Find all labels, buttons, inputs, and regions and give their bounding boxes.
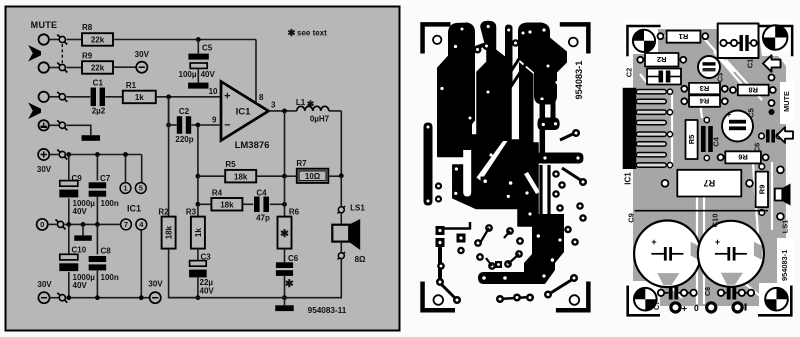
wire rail to C5	[197, 40, 199, 54]
square pads upper-left of bottom area	[436, 222, 471, 247]
resistor R8	[82, 33, 113, 46]
+30V rail	[66, 154, 141, 156]
inductor L1 coil	[297, 106, 329, 111]
silkscreen capacitor C9 (big circle)	[634, 221, 701, 288]
svg-text:✱: ✱	[285, 278, 294, 290]
wire R5 to out node	[256, 175, 284, 177]
PCB2 frame corner bottom-left	[626, 286, 660, 317]
silkscreen arrow marker right (LS feed)	[777, 127, 793, 143]
terminal 0V	[37, 219, 48, 230]
svg-text:10Ω: 10Ω	[305, 172, 321, 181]
copper gray: main plane	[633, 29, 786, 306]
IC1 pin 7 circle	[121, 219, 132, 230]
silkscreen resistor R3	[689, 83, 720, 94]
PCB frame corner top-left	[420, 22, 450, 53]
wire pin3 out	[269, 110, 297, 112]
wire -30V to switch	[50, 297, 59, 299]
PCB2 frame corner top-left	[626, 25, 660, 57]
0V rail	[65, 223, 121, 225]
white cut board-number strip	[777, 238, 794, 292]
copper stub C-bottom right	[551, 100, 556, 120]
connector input ground	[39, 120, 49, 130]
wire R1 to +input	[156, 96, 221, 98]
svg-text:C4: C4	[256, 188, 267, 197]
pads R8	[730, 87, 776, 93]
wire node to R4	[198, 203, 212, 205]
copper trace: diagonal to right pad	[562, 168, 587, 186]
svg-text:30V: 30V	[148, 280, 163, 289]
wire to pin1 circle	[125, 155, 127, 183]
silkscreen resistor R8	[738, 85, 769, 96]
silkscreen resistor R2	[645, 53, 679, 67]
svg-text:IC1: IC1	[127, 204, 141, 214]
pad hole right diagonal head	[528, 30, 531, 33]
fiducial bottom-right	[765, 288, 788, 311]
svg-text:C1: C1	[93, 78, 104, 87]
svg-text:10: 10	[209, 87, 218, 96]
pads near mute	[769, 75, 775, 116]
wire R7 to LS1 column	[328, 175, 341, 177]
svg-text:0: 0	[694, 303, 699, 313]
svg-text:R1: R1	[126, 81, 137, 90]
capacitor C6	[276, 262, 293, 276]
white cut MUTE strip	[780, 82, 794, 124]
svg-text:47p: 47p	[256, 213, 270, 222]
svg-text:✱: ✱	[280, 228, 289, 240]
svg-text:R7: R7	[296, 159, 307, 168]
copper trace: two thin verticals center going down	[541, 165, 549, 228]
wire C2 to -input	[191, 124, 221, 126]
svg-text:R7: R7	[704, 178, 716, 188]
copper pads pair near center top	[474, 42, 491, 54]
scattered pads right side	[552, 170, 587, 222]
pad holes horizontal bar	[543, 156, 579, 159]
svg-text:1k: 1k	[194, 228, 203, 237]
mount hole top-left	[433, 36, 441, 44]
silkscreen resistor R5 (vertical)	[686, 120, 698, 159]
terminal -30V left	[38, 292, 49, 303]
node R4 left / R3	[196, 202, 201, 207]
octagon ring of pads (power transistor footprint)	[474, 224, 524, 270]
wire node to R5	[198, 175, 225, 177]
node R5 left / R3	[196, 174, 201, 179]
resistor R1	[123, 91, 156, 104]
silkscreen capacitor C3 circle	[698, 56, 720, 78]
capacitor C4	[254, 197, 269, 213]
node C6 ground	[282, 295, 287, 300]
svg-text:C8: C8	[705, 287, 712, 296]
switch S2a	[57, 92, 67, 102]
dashed gang line between mute switches	[61, 44, 63, 63]
copper trace: thin vertical between center and right	[505, 25, 513, 86]
svg-text:954083-1: 954083-1	[574, 61, 584, 100]
wire pin4 down	[140, 230, 142, 298]
capacitor C10	[59, 254, 78, 271]
LS1 terminal top	[338, 206, 346, 214]
copper column under right diagonal head	[519, 62, 534, 143]
copper trace: center trace + central plane mass	[453, 22, 538, 227]
pad hole in left trace head	[454, 45, 457, 48]
svg-text:LS1: LS1	[780, 220, 789, 233]
pads R6	[718, 154, 769, 160]
wire R9 to -30V terminal	[113, 66, 136, 68]
pads R2	[637, 57, 686, 63]
switch S3 (+30V)	[57, 150, 67, 160]
svg-text:L1: L1	[296, 98, 306, 107]
svg-text:1k: 1k	[135, 93, 144, 102]
wire C9 top lead	[68, 155, 70, 181]
resistor R2	[162, 217, 176, 249]
svg-text:8: 8	[259, 93, 264, 102]
node C2 left	[166, 123, 171, 128]
svg-text:C8: C8	[101, 246, 112, 255]
wire rail to pin5 circle	[141, 155, 143, 183]
node +input junction	[166, 94, 171, 99]
right PCB component layout group	[623, 20, 794, 319]
connector input top (left ch)	[39, 34, 49, 44]
svg-text:R4: R4	[212, 189, 223, 198]
bottom right pads and diagonal	[544, 226, 579, 299]
silkscreen resistor R4	[689, 95, 720, 106]
PCB frame corner top-right	[560, 22, 591, 53]
wire C10 bottom lead	[68, 272, 70, 298]
wire gnd stub	[284, 298, 286, 306]
IC1 pin 1 circle	[120, 183, 131, 194]
white cut bottom-left corner	[624, 281, 660, 319]
terminal pad 0 (supply)	[694, 303, 716, 313]
ground rail segment	[169, 297, 285, 299]
svg-text:C1: C1	[746, 59, 755, 69]
ground bar (C5)	[188, 83, 208, 89]
svg-text:IC1: IC1	[236, 107, 252, 118]
C8 cluster (pads and bars)	[718, 287, 754, 300]
svg-text:MUTE: MUTE	[31, 20, 58, 30]
wire C8 bottom lead	[96, 269, 98, 297]
wire switch to C1	[67, 96, 91, 98]
wire node to R7	[285, 175, 297, 177]
silkscreen capacitor C2 box	[647, 69, 681, 85]
wire LS1 top lead	[340, 213, 342, 225]
wire switch to ground stub	[67, 125, 91, 135]
svg-text:18k: 18k	[234, 172, 248, 181]
wire C1 to R1	[105, 96, 123, 98]
pad holes bottom-right mass	[482, 234, 554, 280]
wire R2 to ground rail	[169, 249, 198, 298]
capacitor C9	[59, 181, 78, 198]
pad hole left thin trace top	[427, 126, 430, 129]
schematic panel background	[6, 7, 400, 331]
svg-text:C4: C4	[712, 136, 721, 146]
svg-text:40V: 40V	[73, 207, 88, 216]
wire switch to R8	[67, 39, 83, 41]
svg-text:R8: R8	[82, 23, 93, 32]
mount hole bottom-left	[434, 295, 444, 305]
wire L1 down to R7 node	[340, 111, 342, 176]
svg-text:18k: 18k	[220, 200, 234, 209]
switch S5 (-30V)	[57, 293, 67, 303]
wire +30V to switch	[49, 154, 58, 156]
node C10 bottom	[66, 295, 71, 300]
terminal pad - (supply)	[733, 303, 747, 312]
wire down to LS1	[340, 176, 342, 207]
IC1 pin 5 circle	[135, 183, 146, 194]
wire input2 to switch	[49, 67, 59, 69]
svg-text:9: 9	[212, 115, 217, 124]
resistor R6	[278, 217, 292, 249]
resistor R3	[191, 217, 205, 249]
silkscreen resistor R9 (vertical)	[756, 172, 768, 208]
capacitor C1	[91, 88, 105, 107]
white cut bottom-right corner	[759, 283, 794, 319]
svg-text:100µ: 100µ	[179, 70, 197, 79]
copper trace: thin diagonals from right head going down-left	[497, 51, 531, 137]
svg-text:5: 5	[139, 184, 143, 193]
svg-text:30V: 30V	[135, 50, 150, 59]
svg-text:C2: C2	[625, 68, 634, 78]
svg-text:100n: 100n	[101, 273, 119, 282]
mount hole top-right	[569, 38, 578, 47]
PCB2 frame corner bottom-right	[758, 286, 793, 317]
svg-text:100n: 100n	[101, 199, 119, 208]
C7 cluster (pads and bars)	[658, 287, 697, 300]
jack plug symbol upper	[28, 45, 41, 62]
wire out down to R5R7 node	[284, 111, 286, 176]
IC1 pins	[636, 90, 666, 168]
wire switch to R9	[67, 67, 83, 69]
svg-text:−: −	[224, 120, 230, 132]
pads R1	[658, 33, 709, 39]
capacitor C4 bars (layout)	[701, 117, 713, 160]
switch S2b	[57, 120, 67, 130]
svg-text:+: +	[682, 304, 688, 315]
white wedge slit in central mass	[477, 141, 508, 181]
copper trace: right diagonal trace (big)	[519, 24, 566, 104]
silkscreen IC1 body (black)	[623, 88, 637, 169]
capacitor C3	[189, 261, 207, 278]
switch S4 (0V)	[56, 219, 66, 229]
svg-text:R2: R2	[158, 207, 169, 216]
node R7 right	[339, 173, 344, 178]
pads R7	[662, 180, 753, 187]
svg-text:7: 7	[124, 220, 128, 229]
wire LS1 to ground rail	[285, 259, 342, 298]
svg-text:C6: C6	[288, 254, 299, 263]
svg-text:C5: C5	[202, 44, 213, 53]
capacitor C5 bottom plate (open)	[190, 63, 207, 68]
svg-text:+: +	[224, 91, 230, 103]
terminal -30V mute	[136, 62, 147, 73]
pad holes in blob	[542, 122, 557, 126]
svg-text:R2: R2	[657, 55, 667, 64]
svg-text:C7: C7	[654, 301, 661, 310]
pad beside center column	[512, 39, 520, 47]
svg-text:LM3876: LM3876	[235, 140, 270, 151]
small black pad in slot area	[481, 177, 491, 187]
svg-text:R3: R3	[186, 207, 197, 216]
svg-text:18k: 18k	[165, 225, 174, 239]
svg-text:MUTE: MUTE	[782, 91, 791, 112]
silkscreen C1 arrow (input marker)	[763, 55, 781, 72]
LS1 terminal bottom	[338, 252, 346, 260]
pads R3	[681, 86, 728, 92]
wire C5 node to pin8 corner	[198, 39, 256, 41]
node C4/R6	[282, 202, 287, 207]
PCB frame corner bottom-right	[556, 282, 591, 313]
copper pads blob below right diagonal	[538, 118, 560, 131]
svg-text:C3: C3	[716, 73, 725, 83]
svg-text:0µH7: 0µH7	[310, 114, 330, 123]
white cut top-left corner	[624, 20, 658, 54]
capacitor C2	[177, 116, 191, 134]
terminal -30V mid	[150, 292, 161, 303]
wire +in node down to C2 node	[168, 97, 170, 125]
svg-text:2µ2: 2µ2	[92, 107, 106, 116]
connector input signal	[39, 92, 49, 102]
wire down to R6	[284, 176, 286, 216]
wire input1 to switch	[49, 39, 59, 41]
pad hole right head 2	[542, 28, 545, 31]
extra drill holes in copper masses	[461, 28, 562, 278]
svg-text:✱: ✱	[288, 28, 297, 39]
wire C7 bottom lead	[96, 196, 98, 225]
connector input 2	[39, 62, 49, 72]
node pin9/R3	[196, 123, 201, 128]
svg-text:C5: C5	[747, 108, 756, 118]
svg-text:C10: C10	[711, 214, 720, 228]
svg-text:954083-11: 954083-11	[308, 306, 347, 315]
svg-text:1: 1	[123, 184, 127, 193]
silkscreen capacitor C5 circle	[722, 110, 753, 142]
wire 0V to switch	[48, 223, 57, 225]
IC1 pin pads	[667, 89, 672, 168]
wire gnd stub 0V	[82, 224, 84, 235]
svg-text:R1: R1	[679, 32, 689, 41]
svg-text:R6: R6	[738, 153, 748, 162]
svg-text:R5: R5	[687, 135, 696, 145]
node C9 top	[66, 152, 71, 157]
white separation channels in gray	[640, 34, 772, 304]
wire +in node down to R2	[168, 97, 170, 217]
white slot in central mass	[463, 150, 471, 197]
copper trace: left thin vertical trace with rounded ends	[424, 123, 433, 206]
isolated pads left-middle bottom	[437, 247, 465, 270]
wire C7 top lead	[96, 155, 98, 181]
copper trace: horizontal bar right-middle	[536, 153, 584, 164]
pad hole in E trace	[507, 29, 510, 32]
svg-text:C10: C10	[72, 245, 87, 254]
node pin4 bottom	[139, 295, 144, 300]
wire R8 to C5 node	[113, 39, 198, 41]
wire C4 to R6 column	[270, 203, 285, 205]
resistor R5	[225, 170, 256, 183]
pad hole right diagonal 2	[540, 97, 543, 100]
switch S1b	[57, 63, 67, 73]
svg-text:22k: 22k	[91, 36, 105, 45]
pads R4	[681, 98, 728, 104]
svg-text:8Ω: 8Ω	[355, 255, 366, 264]
wire C8 top lead	[96, 224, 98, 254]
node C7 bottom	[95, 222, 100, 227]
silkscreen resistor R7 (large)	[677, 170, 741, 197]
wire C6 to ground rail	[284, 276, 286, 298]
fiducial top-left	[633, 30, 655, 52]
copper trace: left power trace (wide)	[438, 24, 474, 157]
pads R9	[759, 164, 765, 216]
svg-text:30V: 30V	[37, 280, 52, 289]
svg-text:0: 0	[40, 220, 44, 229]
silkscreen resistor R1	[667, 31, 701, 43]
op-amp IC1 triangle	[221, 82, 269, 141]
svg-text:IC1: IC1	[624, 172, 633, 185]
svg-text:C9: C9	[627, 213, 636, 223]
wire R6 to C6	[284, 249, 286, 263]
wire L1 to LS1 column	[329, 110, 342, 112]
svg-text:R8: R8	[748, 85, 758, 94]
capacitor C6 bars (layout)	[759, 130, 782, 143]
wire C5 to ground	[197, 68, 199, 82]
svg-text:954083-1: 954083-1	[780, 250, 789, 281]
ground bar (output)	[275, 305, 294, 311]
middle PCB copper layout group	[420, 22, 590, 313]
terminal pad + (supply)	[671, 303, 688, 315]
jack plug symbol lower	[28, 103, 41, 120]
loudspeaker LS1	[332, 219, 360, 250]
pad hole in left trace body	[440, 87, 443, 90]
node gnd stub	[81, 222, 86, 227]
node pin1 feed	[123, 152, 128, 157]
IC1 pin 4 circle	[136, 219, 147, 230]
pad hole center head	[487, 25, 490, 28]
wire R4 to C4	[242, 203, 253, 205]
svg-text:see text: see text	[297, 28, 327, 37]
svg-text:C2: C2	[179, 107, 190, 116]
capacitor C5 top plate (filled)	[188, 54, 208, 60]
wire R3 to C3	[197, 249, 199, 261]
svg-text:R5: R5	[225, 160, 236, 169]
wire C2 left	[169, 124, 177, 126]
svg-text:LS1: LS1	[350, 204, 365, 213]
silkscreen loudspeaker LS1 symbol	[775, 166, 791, 220]
wire LS1 bottom lead	[340, 242, 342, 253]
copper trace: right stub with pad	[560, 129, 580, 140]
copper plane: big bottom-right mass merged with bottom bar	[478, 214, 564, 284]
svg-text:R4: R4	[699, 96, 709, 105]
resistor R4	[211, 198, 242, 211]
node C3 on ground rail	[196, 295, 201, 300]
node C7 top	[95, 152, 100, 157]
svg-text:R9: R9	[758, 185, 767, 195]
ground bar (0V rail)	[74, 235, 92, 240]
switch S1a	[57, 35, 67, 45]
svg-text:220p: 220p	[175, 135, 193, 144]
node C8 bottom	[95, 295, 100, 300]
fiducial top-right	[763, 25, 787, 49]
PCB frame corner bottom-left	[420, 282, 455, 313]
resistor R7	[297, 169, 329, 183]
capacitor C7	[89, 182, 107, 196]
node out/R6 top	[282, 109, 287, 114]
wire C9 bottom lead	[68, 198, 70, 224]
resistor R9	[82, 61, 113, 73]
PCB2 frame corner top-right	[759, 25, 793, 57]
svg-text:+: +	[727, 110, 732, 119]
bottom pads row center	[496, 294, 534, 304]
node C5 on +rail	[196, 37, 201, 42]
svg-text:40V: 40V	[200, 286, 215, 295]
pad hole right diagonal 1	[555, 81, 558, 84]
node C9 bottom	[66, 222, 71, 227]
svg-text:30V: 30V	[37, 165, 52, 174]
